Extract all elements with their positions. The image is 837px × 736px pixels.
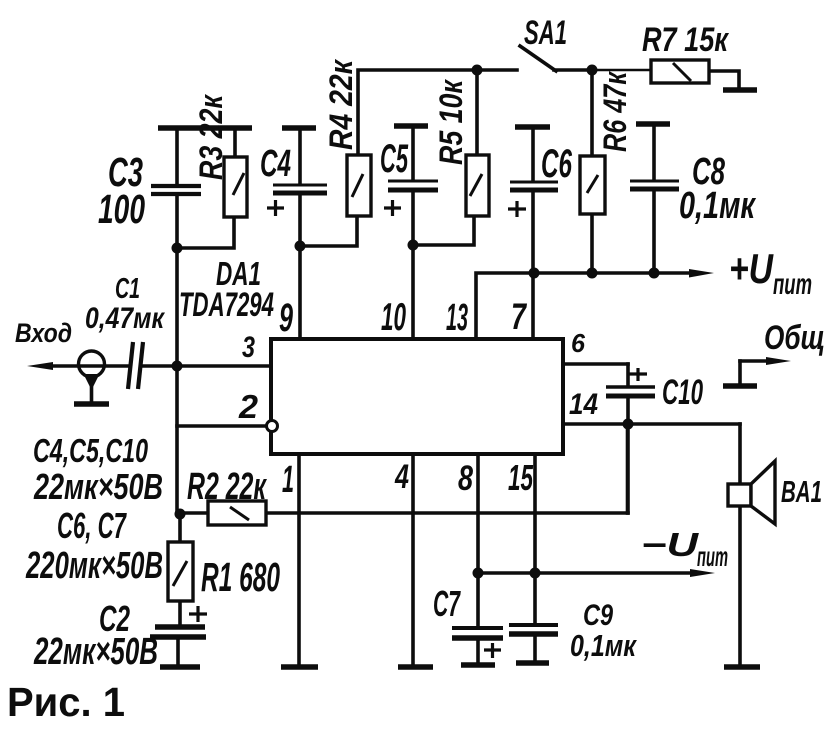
svg-text:22мк×50В: 22мк×50В xyxy=(33,631,158,673)
svg-text:R2 22к: R2 22к xyxy=(187,466,267,508)
svg-text:BA1: BA1 xyxy=(781,474,822,509)
svg-text:−U: −U xyxy=(641,526,700,563)
svg-text:C4,C5,C10: C4,C5,C10 xyxy=(33,432,148,469)
svg-text:C10: C10 xyxy=(662,373,703,412)
svg-text:C6: C6 xyxy=(541,142,572,186)
svg-text:пит: пит xyxy=(697,541,728,572)
svg-text:10: 10 xyxy=(381,296,406,339)
svg-text:15: 15 xyxy=(508,457,534,498)
svg-text:3: 3 xyxy=(242,331,255,364)
svg-text:Вход: Вход xyxy=(15,318,72,348)
svg-text:Общ: Общ xyxy=(764,319,825,357)
svg-text:C6, C7: C6, C7 xyxy=(57,505,127,546)
svg-text:8: 8 xyxy=(458,459,473,498)
svg-text:R4 22к: R4 22к xyxy=(323,58,359,150)
svg-text:9: 9 xyxy=(279,296,293,340)
svg-text:1: 1 xyxy=(282,459,294,501)
svg-text:+U: +U xyxy=(729,245,774,292)
svg-text:22мк×50В: 22мк×50В xyxy=(33,466,163,507)
svg-text:R5 10к: R5 10к xyxy=(433,79,469,165)
svg-text:4: 4 xyxy=(394,458,409,496)
svg-text:7: 7 xyxy=(511,296,528,337)
svg-text:R3 22к: R3 22к xyxy=(193,94,229,180)
svg-text:C1: C1 xyxy=(115,273,140,305)
svg-text:0,1мк: 0,1мк xyxy=(679,185,756,227)
svg-text:13: 13 xyxy=(446,297,468,339)
svg-text:100: 100 xyxy=(98,186,145,232)
svg-text:Рис. 1: Рис. 1 xyxy=(7,679,125,725)
svg-text:TDA7294: TDA7294 xyxy=(179,286,274,324)
svg-text:C7: C7 xyxy=(433,583,461,624)
svg-text:14: 14 xyxy=(569,388,598,421)
svg-text:2: 2 xyxy=(238,388,259,425)
svg-text:0,1мк: 0,1мк xyxy=(570,628,637,663)
svg-text:SA1: SA1 xyxy=(524,14,567,52)
svg-text:0,47мк: 0,47мк xyxy=(85,302,165,335)
svg-text:R1 680: R1 680 xyxy=(201,554,280,600)
svg-text:220мк×50В: 220мк×50В xyxy=(25,545,163,587)
svg-text:C4: C4 xyxy=(260,143,291,185)
svg-text:6: 6 xyxy=(571,328,586,358)
svg-text:R7 15к: R7 15к xyxy=(642,21,729,59)
svg-text:R6 47к: R6 47к xyxy=(597,71,633,152)
svg-text:C5: C5 xyxy=(380,137,408,181)
svg-text:пит: пит xyxy=(773,268,812,301)
